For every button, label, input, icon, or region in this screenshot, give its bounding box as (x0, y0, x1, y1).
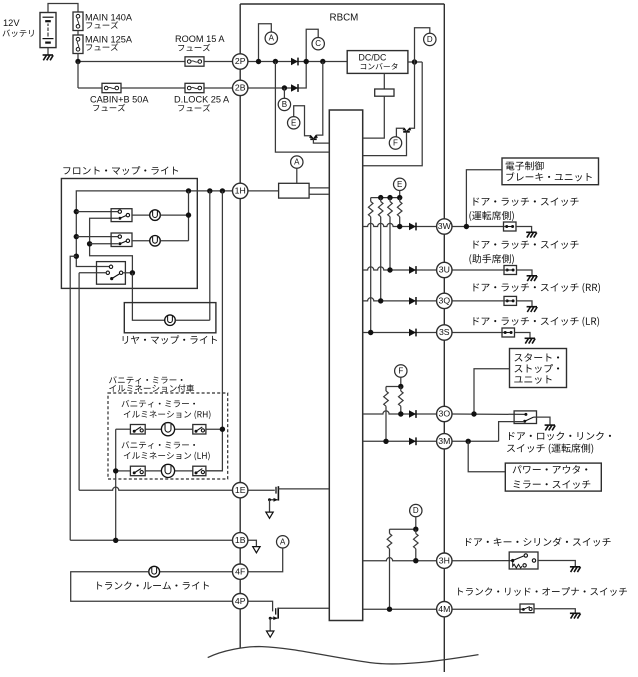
label パワー・アウタ・ (513, 465, 588, 474)
wire sw2 common feed (90, 243, 119, 245)
mosfet Q4 (275, 608, 277, 614)
label ドア・ラッチ・スイッチ 1 (473, 197, 578, 206)
label フューズ 2 (86, 43, 118, 50)
wire MAIN fuse to node (77, 54, 79, 62)
hook to D1ref (415, 28, 430, 62)
svg-text:RBCM: RBCM (330, 13, 359, 24)
wire battery to ground (47, 48, 49, 55)
wire DLOCK fuse to 2B (204, 87, 233, 89)
label ドア・ロック・リンク・ (509, 432, 611, 441)
wire master out (123, 272, 132, 274)
wire brake unit to 3W (466, 170, 502, 227)
node 2P-T1 (273, 59, 278, 64)
label リヤ・マップ・ライト (123, 335, 217, 344)
label イルミネーション付車 (109, 384, 194, 392)
box brake unit (502, 158, 599, 185)
node 1B vanity (113, 538, 118, 543)
bulb front map RH (150, 210, 161, 221)
diode D6 (409, 329, 416, 336)
wire 1H rail left (76, 191, 232, 267)
node master out (130, 270, 135, 275)
node D rail (413, 527, 418, 532)
svg-text:12V: 12V (3, 18, 20, 28)
wire vanity LH row (116, 470, 131, 472)
svg-text:3H: 3H (439, 555, 450, 565)
ref E1 (288, 117, 300, 129)
wire bulb riser (188, 191, 190, 241)
svg-text:ROOM 15 A: ROOM 15 A (175, 34, 225, 44)
wire key cyl out to gnd (538, 561, 575, 567)
wire node to ROOM fuse (78, 61, 185, 63)
svg-text:4M: 4M (438, 604, 450, 614)
svg-text:A: A (280, 537, 286, 546)
wire 3S ext (452, 332, 505, 334)
bulb rear map (165, 315, 176, 326)
wire 3W ext (452, 226, 507, 228)
node 3H res (413, 558, 418, 563)
bulb vanity LH (161, 464, 174, 477)
wire riser to 1E (78, 273, 80, 490)
wire trunk loop (71, 572, 233, 602)
box DC/DC converter (347, 51, 408, 74)
svg-text:A: A (294, 158, 300, 167)
svg-text:A: A (269, 34, 275, 43)
wire common riser top (90, 218, 133, 272)
ground latch LR (525, 337, 535, 339)
wire D rail (390, 528, 416, 530)
RBCM internal bus box (329, 110, 362, 621)
wire 4P to gate (248, 601, 273, 611)
node rail 1 (378, 195, 383, 200)
RBCM left edge (239, 4, 241, 649)
node 4M res (387, 607, 392, 612)
hook to A1 (259, 24, 272, 62)
connector 3O (437, 406, 452, 421)
ground lock link (545, 424, 555, 426)
label 助手席側 (469, 254, 513, 264)
wire CABIN to DLOCK fuse (121, 87, 185, 89)
resistor R1 (370, 198, 372, 202)
label イルミネーション LH (124, 452, 210, 461)
connector 3H (437, 553, 452, 568)
label バニティ・ミラー・ RH (122, 400, 195, 408)
wire F rail (386, 386, 401, 388)
wire rear map left riser (132, 273, 164, 320)
node 2P-A (256, 59, 261, 64)
switch front map master (97, 262, 126, 285)
box start stop unit (510, 349, 567, 388)
label フューズ 1 (86, 21, 118, 28)
wire DCDC node to Q2 (410, 62, 415, 128)
wire 3H ext (452, 560, 513, 562)
ref D1 (424, 33, 436, 45)
wire bulb1 to riser (160, 214, 188, 216)
wire bulb2 to riser (160, 240, 188, 242)
wire 3Q ext (452, 300, 507, 302)
wire Q1 to bus (313, 139, 329, 143)
connector 3S (437, 325, 452, 340)
diode D7 (409, 410, 416, 417)
node 2B branch (282, 85, 287, 90)
svg-text:3S: 3S (439, 327, 450, 337)
switch vanity LH 1 (130, 466, 145, 476)
wire F2 to rail (400, 377, 402, 386)
wire DCDC out (408, 61, 422, 63)
node 3O res (398, 411, 403, 416)
node 2P-T1b (320, 59, 325, 64)
diode D3 (409, 223, 416, 230)
wire vanity right riser (206, 191, 223, 471)
svg-text:1B: 1B (235, 535, 246, 545)
node 3W ext (464, 224, 469, 229)
svg-text:3Q: 3Q (439, 296, 451, 306)
wire power to 1B riser (70, 256, 76, 540)
label フューズ 5 (178, 104, 210, 111)
ref F1 (389, 137, 401, 149)
fuse CABIN+B 50A (102, 83, 121, 92)
wire trunk lid out to gnd (534, 609, 575, 613)
ref E2 (394, 178, 406, 190)
hook to C (306, 29, 318, 61)
svg-text:F: F (393, 139, 398, 148)
label フューズ 4 (93, 104, 125, 111)
wire 3S rail (363, 332, 437, 334)
switch door latch RF (504, 222, 517, 231)
node battery feed (75, 59, 80, 64)
node 3S (368, 330, 373, 335)
bulb front map LH (150, 236, 161, 247)
node rail 2 (387, 195, 392, 200)
svg-text:C: C (315, 39, 321, 48)
label イルミネーション RH (124, 410, 211, 419)
svg-text:MAIN 125A: MAIN 125A (85, 34, 133, 44)
wire 1B rail (70, 539, 232, 541)
diode D8 (409, 438, 416, 445)
wire A3 to 4F (248, 548, 283, 572)
switch door latch RR (504, 296, 517, 305)
resistor R2 (380, 198, 382, 202)
wire 2P to Q1 (316, 62, 323, 136)
wire 3O ext (452, 413, 525, 415)
wire to CABIN fuse (78, 87, 102, 89)
node fm-3 (74, 254, 79, 259)
wire E2 to rail (399, 191, 401, 198)
label 電子制御 (506, 161, 544, 170)
wire 3U rail (363, 267, 437, 270)
ref C (312, 38, 324, 50)
label バニティ・ミラー・ 0 (109, 376, 182, 384)
connector 4P (233, 594, 248, 609)
wire 2B rail (248, 62, 306, 89)
wire battery top to fuse (48, 4, 78, 13)
wire 3U ext (452, 269, 507, 271)
connector 3M (437, 434, 452, 449)
ground marker 1B (253, 547, 260, 553)
resistor R10 (415, 529, 417, 533)
wire vanity left riser (115, 429, 117, 540)
node 2P-C (304, 59, 309, 64)
wire 3M ext (452, 440, 499, 442)
wire lock link out to gnd (534, 417, 551, 425)
label フューズ 3 (178, 44, 210, 51)
label スタート・ (514, 353, 559, 362)
connector 4F (233, 564, 248, 579)
label ドア・ラッチ・スイッチ LR (473, 317, 599, 327)
wire rear map right riser (175, 191, 210, 320)
wire latch RR to gnd (517, 301, 533, 306)
wire R6 to bus upper (309, 187, 329, 189)
wire resistor rail (371, 197, 400, 199)
wire D2 to rail (415, 517, 417, 529)
svg-text:4F: 4F (235, 566, 245, 576)
svg-text:4P: 4P (235, 596, 246, 606)
svg-text:3W: 3W (438, 221, 452, 231)
ref A2 (291, 156, 303, 168)
switch door lock link (514, 411, 536, 424)
ref A1 (265, 32, 277, 44)
wire start stop to 3O (474, 369, 510, 414)
svg-text:F: F (398, 367, 403, 376)
node F rail (398, 384, 403, 389)
diode D4 (409, 266, 416, 273)
wire A2 to R6 (296, 168, 298, 183)
fuse D.LOCK 25A (185, 83, 204, 92)
wire 3M to mirror switch (468, 441, 505, 471)
connector 3W (437, 219, 452, 234)
node rail 3 (397, 195, 402, 200)
svg-text:B: B (282, 100, 287, 109)
node 3W (397, 224, 402, 229)
label ドア・キー・シリンダ・スイッチ (466, 537, 611, 546)
svg-text:3U: 3U (439, 265, 450, 275)
label コンバータ (361, 63, 398, 70)
ground key cylinder (570, 566, 580, 568)
node 3Q (378, 298, 383, 303)
hook E1 to transistor Q1 (294, 106, 311, 136)
switch trunk lid opener (520, 604, 534, 613)
wire sw2 top feed (76, 236, 118, 238)
node fm-2 (74, 234, 79, 239)
diode D5 (409, 297, 416, 304)
wire 4M ext (452, 608, 523, 610)
svg-text:2P: 2P (235, 56, 246, 66)
connector 2B (233, 80, 248, 95)
wire R5 to bus (363, 96, 385, 138)
wire 3M to lock link pivot (499, 422, 524, 442)
ground latch RF (526, 231, 536, 233)
label スイッチ 運転席側 (507, 443, 593, 453)
svg-text:E: E (291, 118, 296, 127)
switch front map RH (111, 209, 132, 222)
wire 1E to gate (248, 489, 275, 491)
wire 2P rail (248, 61, 347, 63)
svg-text:MAIN 140A: MAIN 140A (85, 12, 133, 22)
label 運転席側 1 (469, 211, 513, 221)
node 1H-a (220, 188, 225, 193)
wire 3O rail (363, 411, 437, 414)
resistor R8 (400, 387, 402, 392)
ref F2 (395, 365, 407, 377)
label バッテリ (3, 29, 34, 37)
svg-text:3O: 3O (439, 409, 451, 419)
node vanity LH in (113, 468, 118, 473)
wire 3M rail (363, 440, 437, 442)
connector 1B (233, 533, 248, 548)
diode D1 on 2P rail (291, 58, 298, 65)
resistor block R6 (279, 183, 310, 198)
resistor R7 (385, 387, 387, 392)
connector 1H (233, 183, 248, 198)
ground trunk lid (570, 612, 580, 614)
transistor Q1 (311, 136, 313, 139)
ground latch LF (527, 275, 537, 277)
wire 3Q rail (363, 298, 437, 301)
svg-text:DC/DC: DC/DC (359, 53, 388, 63)
RBCM right edge (443, 4, 445, 672)
label トランク・ルーム・ライト (97, 581, 209, 589)
wire DCDC to resistor R5 (383, 73, 385, 89)
wire master mid to 1E riser (79, 272, 106, 274)
label トランク・リッド・オープナ・スイッチ (458, 587, 627, 596)
label ブレーキ・ユニット (506, 172, 591, 181)
node 3M ext (466, 439, 471, 444)
resistor R9 (389, 529, 391, 533)
node fm-1 (74, 209, 79, 214)
RBCM top edge (240, 3, 444, 5)
resistor R5 block (375, 89, 394, 96)
svg-text:D: D (413, 506, 419, 515)
label ミラー・スイッチ (514, 480, 591, 489)
box vanity dashed (108, 393, 228, 479)
fuse MAIN 140A (73, 12, 83, 31)
connector 1E (233, 483, 248, 498)
switch vanity RH 2 (193, 425, 206, 435)
wire 2P to bus (275, 62, 329, 153)
node common sw2 (87, 241, 92, 246)
wire sw2 to bulb2 (132, 240, 150, 242)
label ストップ・ (514, 364, 559, 373)
node DCDC out (412, 59, 417, 64)
ground marker 4P (267, 631, 274, 637)
label ユニット (514, 375, 551, 383)
switch vanity LH 2 (193, 466, 206, 476)
ref D2 (410, 504, 422, 516)
connector 3Q (437, 293, 452, 308)
box front map light (61, 179, 197, 289)
connector 4M (437, 602, 452, 617)
wire Q2 left lead to F1 (396, 128, 404, 137)
switch door latch LR (502, 328, 515, 337)
wire 1E rail (79, 487, 232, 490)
label フロント・マップ・ライト (63, 166, 178, 175)
wire between MAIN fuses (77, 31, 79, 36)
node 3O ext (471, 411, 476, 416)
wire ROOM fuse to 2P (204, 61, 233, 63)
transistor Q2 (404, 128, 406, 131)
wire node down to cabin row (77, 62, 79, 89)
svg-text:CABIN+B 50A: CABIN+B 50A (90, 95, 149, 105)
box rear map light (124, 303, 216, 333)
node 1H-b (207, 188, 212, 193)
svg-text:D: D (427, 35, 433, 44)
node vanity RH out (220, 427, 225, 432)
break line (208, 647, 479, 664)
svg-text:D.LOCK 25 A: D.LOCK 25 A (174, 95, 230, 105)
svg-text:1H: 1H (235, 186, 246, 196)
diode D2 on 2B rail (291, 84, 298, 91)
fuse ROOM 15A (185, 57, 204, 66)
ref A3 (277, 536, 289, 548)
wire 1B stub (248, 540, 257, 546)
wire DCDC node to bus (363, 62, 423, 166)
wire 4F to trunk bulb (149, 571, 233, 573)
resistor R3 (389, 198, 391, 202)
connector 2P (233, 54, 248, 69)
box power outer mirror switch (505, 463, 601, 491)
svg-text:3M: 3M (438, 436, 450, 446)
wire 3W rail (363, 223, 437, 226)
wire latch RF to gnd (516, 227, 532, 232)
ground marker 1E (266, 512, 273, 518)
stub to B (283, 88, 285, 98)
node 3M res (383, 439, 388, 444)
bulb vanity RH (161, 423, 174, 436)
node bulb riser (186, 212, 191, 217)
fuse MAIN 125A (73, 35, 83, 54)
wire sw1 top feed (76, 211, 118, 213)
node 3U (387, 267, 392, 272)
svg-text:1E: 1E (235, 485, 246, 495)
bulb trunk room (149, 566, 160, 577)
connector 3U (437, 262, 452, 277)
wire latch LF to gnd (517, 270, 533, 275)
wire latch LR to gnd (515, 333, 531, 338)
mosfet Q3 (275, 487, 277, 494)
switch front map LH (111, 233, 132, 247)
wire 4M rail (363, 608, 437, 610)
label ドア・ラッチ・スイッチ RR (473, 283, 600, 293)
ref B (278, 98, 290, 110)
battery B1 12V (40, 13, 56, 48)
label バニティ・ミラー・ LH (122, 441, 195, 449)
resistor R4 (399, 198, 401, 202)
label ドア・ラッチ・スイッチ 2 (473, 240, 578, 249)
wire vanity RH row (116, 428, 131, 430)
wire 3H rail (363, 558, 437, 561)
wire R6 to bus lower (309, 193, 329, 195)
node 1H-c (186, 188, 191, 193)
switch vanity RH 1 (130, 425, 145, 435)
wire 1H to resistor block (248, 190, 279, 192)
wire Q2 to bus (363, 132, 407, 156)
switch key cylinder (509, 552, 538, 569)
ground battery (43, 54, 53, 56)
ground latch RR (527, 306, 537, 308)
svg-text:E: E (397, 180, 402, 189)
wire sw1 to bulb1 (132, 214, 150, 216)
switch door latch LF (504, 266, 517, 275)
svg-text:2B: 2B (235, 83, 246, 93)
